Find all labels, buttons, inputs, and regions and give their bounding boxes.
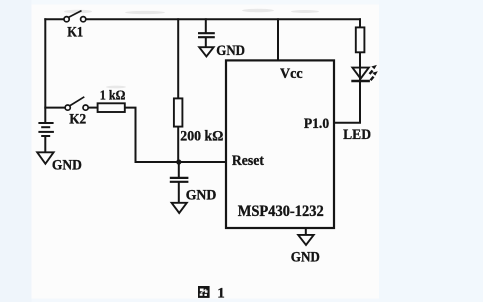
svg-text:MSP430-1232: MSP430-1232 bbox=[238, 203, 324, 220]
svg-text:K1: K1 bbox=[67, 24, 83, 40]
svg-text:Vcc: Vcc bbox=[280, 66, 303, 82]
svg-text:Reset: Reset bbox=[232, 153, 264, 169]
svg-text:GND: GND bbox=[52, 157, 82, 173]
svg-text:GND: GND bbox=[291, 250, 320, 266]
svg-text:GND: GND bbox=[216, 43, 245, 59]
svg-text:GND: GND bbox=[186, 187, 217, 203]
svg-text:K2: K2 bbox=[69, 112, 86, 128]
svg-text:1 kΩ: 1 kΩ bbox=[100, 88, 126, 103]
svg-text:200 kΩ: 200 kΩ bbox=[180, 128, 223, 144]
svg-text:1: 1 bbox=[217, 286, 225, 302]
svg-text:LED: LED bbox=[343, 127, 371, 143]
svg-text:P1.0: P1.0 bbox=[304, 116, 329, 132]
